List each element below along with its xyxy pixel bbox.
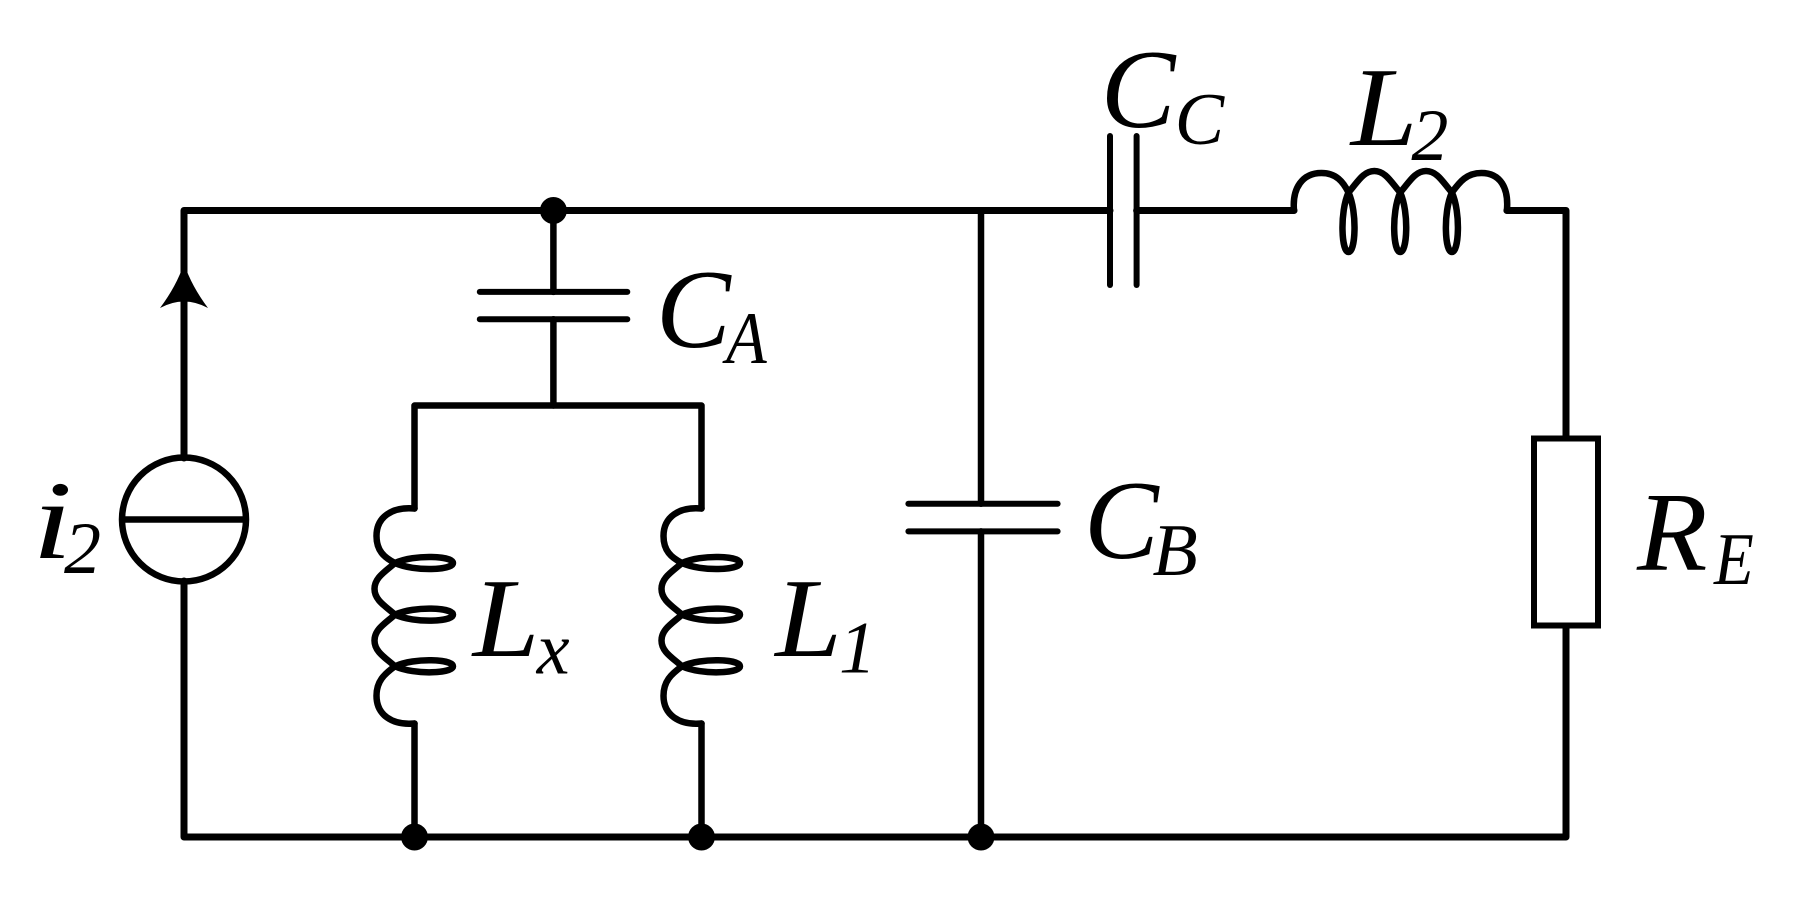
wire Lx to bottom rail bbox=[411, 724, 418, 838]
svg-text:x: x bbox=[536, 608, 570, 690]
wire node to CA bbox=[550, 211, 557, 292]
svg-text:C: C bbox=[1175, 79, 1226, 161]
svg-text:R: R bbox=[1636, 471, 1707, 595]
wire CA to bracket bbox=[550, 319, 557, 405]
capacitor CC right plate bbox=[1134, 136, 1140, 285]
svg-text:E: E bbox=[1713, 519, 1754, 601]
svg-text:A: A bbox=[722, 298, 767, 380]
svg-text:1: 1 bbox=[839, 608, 876, 690]
svg-text:B: B bbox=[1153, 510, 1198, 592]
wire L1 to bottom rail bbox=[698, 724, 705, 838]
wire top rail to CB bbox=[978, 211, 985, 504]
current source i2 bar bbox=[124, 516, 244, 523]
capacitor CA bottom plate bbox=[480, 316, 628, 322]
node dot at CA top junction bbox=[540, 197, 567, 224]
resistor RE body bbox=[1534, 439, 1598, 626]
current source i2 circle bbox=[122, 458, 246, 582]
inductor L1 coil bbox=[662, 508, 741, 723]
bracket wire over Lx and L1 bbox=[415, 406, 702, 509]
current source arrow head bbox=[160, 264, 208, 309]
wire CB to bottom rail bbox=[978, 531, 985, 837]
capacitor CB bottom plate bbox=[908, 528, 1057, 534]
svg-text:2: 2 bbox=[1411, 95, 1448, 177]
inductor L2 coil bbox=[1294, 171, 1507, 252]
svg-text:L: L bbox=[471, 558, 540, 682]
node dot bottom Lx bbox=[401, 824, 428, 851]
node dot bottom L1 bbox=[688, 824, 715, 851]
node dot bottom CB bbox=[968, 824, 995, 851]
svg-text:C: C bbox=[656, 248, 732, 372]
wire right side, bottom rail, left side bbox=[184, 581, 1566, 837]
wire top-right corner L2 to RE bbox=[1507, 211, 1566, 438]
wire top rail from left corner to Cc bbox=[184, 211, 1110, 459]
capacitor CA top plate bbox=[480, 289, 628, 295]
svg-text:C: C bbox=[1101, 28, 1177, 152]
wire top rail Cc to L2 bbox=[1137, 207, 1294, 214]
svg-text:C: C bbox=[1084, 459, 1160, 583]
svg-text:L: L bbox=[773, 558, 842, 682]
capacitor CB top plate bbox=[908, 501, 1057, 507]
svg-text:2: 2 bbox=[64, 508, 101, 590]
svg-text:L: L bbox=[1349, 47, 1418, 171]
capacitor CC left plate bbox=[1107, 136, 1113, 285]
inductor Lx coil bbox=[375, 508, 454, 723]
